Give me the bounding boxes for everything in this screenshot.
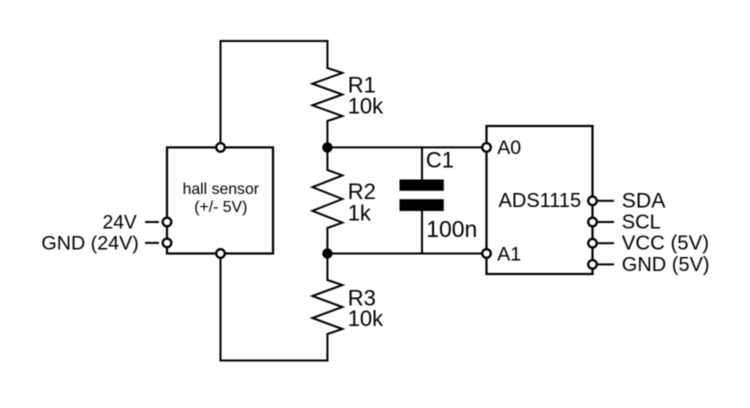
svg-text:A1: A1 bbox=[497, 243, 521, 265]
pin GND (5V) of ADS1115 with lead bbox=[588, 260, 613, 269]
svg-text:SCL: SCL bbox=[622, 212, 661, 234]
svg-text:100n: 100n bbox=[426, 216, 477, 242]
resistor R2 bbox=[312, 147, 342, 253]
wire: R3 bottom left and up to hall sensor bottom terminal bbox=[221, 254, 328, 361]
label R1 10k bbox=[348, 73, 384, 119]
svg-text:GND (24V): GND (24V) bbox=[41, 232, 138, 254]
terminal: GND (24V) input pin with lead bbox=[146, 239, 171, 248]
IC U1 ADS1115 box bbox=[487, 126, 593, 274]
svg-text:24V: 24V bbox=[102, 213, 136, 234]
wire: hall sensor top terminal up and over to R1 top bbox=[221, 41, 328, 147]
label R2 1k bbox=[348, 179, 376, 225]
svg-text:1k: 1k bbox=[348, 200, 372, 225]
svg-text:hall sensor: hall sensor bbox=[183, 181, 259, 198]
pin A1 of ADS1115 bbox=[482, 249, 491, 258]
node: R2/R3 junction dot bbox=[322, 248, 332, 258]
label hall sensor (+/- 5V) bbox=[183, 181, 259, 216]
terminal: hall sensor bottom pin bbox=[216, 249, 225, 258]
pin VCC (5V) of ADS1115 with lead bbox=[588, 239, 613, 248]
terminal: hall sensor top pin bbox=[216, 143, 225, 152]
label C1 100n bbox=[426, 148, 477, 242]
svg-text:A0: A0 bbox=[497, 137, 521, 159]
svg-text:ADS1115: ADS1115 bbox=[499, 190, 582, 212]
label R3 10k bbox=[348, 286, 384, 331]
capacitor C1 bbox=[400, 147, 444, 253]
wire: R1/R2 junction to ADS1115 pin A0 bbox=[327, 146, 486, 148]
pin SDA of ADS1115 with lead bbox=[588, 197, 613, 206]
resistor R1 bbox=[312, 41, 342, 147]
svg-text:10k: 10k bbox=[348, 306, 384, 331]
svg-text:(+/- 5V): (+/- 5V) bbox=[194, 199, 247, 216]
svg-text:GND (5V): GND (5V) bbox=[622, 254, 710, 276]
pin A0 of ADS1115 bbox=[482, 143, 491, 152]
terminal: 24V input pin with lead bbox=[146, 218, 171, 227]
hall sensor box bbox=[167, 147, 273, 253]
resistor R3 bbox=[312, 254, 342, 361]
svg-text:SDA: SDA bbox=[622, 189, 666, 212]
svg-text:10k: 10k bbox=[348, 94, 384, 119]
wire: R2/R3 junction to ADS1115 pin A1 bbox=[327, 253, 486, 255]
svg-text:VCC (5V): VCC (5V) bbox=[622, 233, 709, 255]
node: R1/R2 junction dot bbox=[322, 142, 332, 152]
svg-text:C1: C1 bbox=[426, 148, 454, 173]
pin SCL of ADS1115 with lead bbox=[588, 218, 613, 227]
